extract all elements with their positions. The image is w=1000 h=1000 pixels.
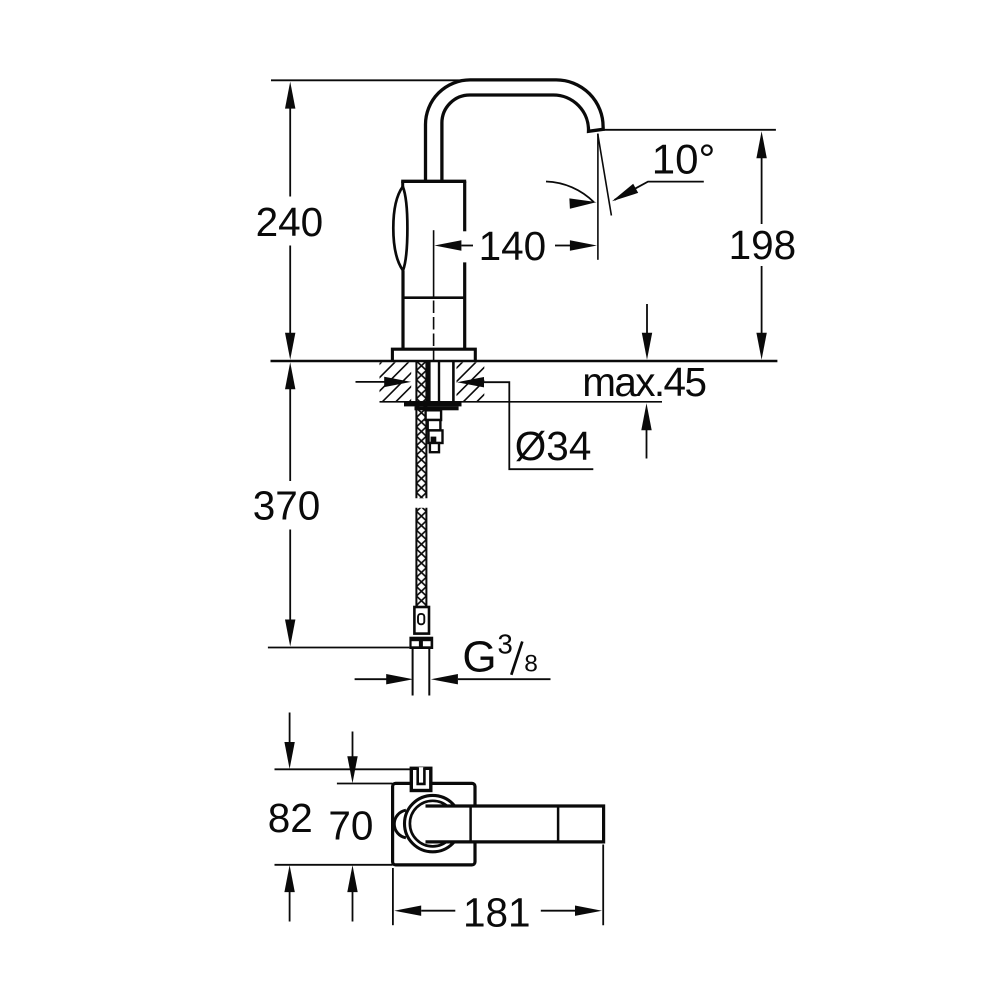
outlet extension line [604,129,776,131]
body joint line [403,296,465,299]
spout bar division line 2 [557,806,560,842]
fraction slash [511,642,522,675]
connector fitting A [426,410,442,420]
hose nut window left [412,641,419,646]
lever tab slot [418,767,425,784]
hose end fitting slot [418,614,424,624]
svg-text:370: 370 [253,483,321,529]
escutcheon square [393,783,475,865]
faucet body right edge upper [463,181,466,231]
faucet body left edge upper [401,181,404,187]
198 dimension line [756,131,766,360]
faucet body top edge [401,180,466,183]
svg-text:3: 3 [498,628,513,659]
base flange [392,349,475,361]
svg-text:140: 140 [479,223,547,269]
hose nut window right [423,641,431,646]
svg-text:240: 240 [256,199,324,245]
spout pipe outline (side view) [426,80,604,181]
G3/8 dimension right arrow [431,674,551,684]
70 lower arrow [347,865,357,921]
body inner circle [410,801,456,847]
max45 upper arrow [642,304,652,360]
hose end fitting [414,607,429,634]
mounting nut [415,406,459,410]
svg-text:8: 8 [524,651,538,678]
hose nut [409,637,433,649]
svg-text:181: 181 [463,889,531,935]
10 degree leader line [615,182,704,200]
angle arc [546,182,594,203]
svg-text:70: 70 [328,802,373,848]
counter hatching [331,313,579,413]
wire top extension line from spout top to 240 dimension [271,79,468,81]
diameter 34 leader right arrow and bent leader [457,377,593,469]
centerline solid [433,230,435,298]
240 dimension line [285,82,295,360]
svg-text:Ø34: Ø34 [515,423,592,469]
181 left extension line [392,868,394,925]
spout bar top view [426,806,604,842]
stream vertical extension line [597,134,599,260]
spout bar division line 1 [469,806,472,842]
140 dimension [434,240,597,250]
181 dimension line [394,906,602,916]
svg-text:max.45: max.45 [582,359,705,405]
181 right extension line [602,845,604,926]
G3/8 pipe left edge [412,649,414,696]
stream 10 degree slant line [598,134,612,216]
angle arc arrowhead [569,197,597,209]
370 bottom extension line [268,647,410,649]
70 top extension line [337,783,393,785]
connector fitting C inner block [431,437,437,443]
svg-text:G: G [462,633,496,682]
bottom extension line for 82 and 70 [275,864,393,866]
shank middle line [438,361,440,402]
faucet body right edge lower [463,262,466,349]
body outer circle [405,795,461,851]
mounting washer [404,402,462,407]
lever lens shape [393,187,407,271]
G3/8 dimension left arrow [355,674,414,684]
70 upper arrow [347,732,357,784]
G3/8 pipe right edge [428,649,430,696]
svg-text:10°: 10° [652,136,716,183]
svg-text:82: 82 [268,795,313,841]
max45 lower arrow [641,403,651,458]
left bump arc [394,810,406,838]
faucet body left edge lower [401,271,404,350]
diameter 34 leader left arrow [356,377,412,387]
lever tab top view [411,768,431,790]
370 dimension line [285,362,295,646]
connector fitting D [430,443,439,452]
connector fitting B [428,420,441,430]
82 upper arrow [284,713,294,770]
deck (counter top) line [271,360,778,362]
82 top extension line [275,768,412,770]
centerline dashed [433,301,435,361]
braided hose lower segment [416,508,426,607]
82 lower arrow [284,865,294,921]
threaded shank left edge [426,361,430,402]
10 degree leader arrowhead [610,184,639,206]
braided hose upper segment [416,361,426,498]
svg-text:198: 198 [729,222,797,268]
connector fitting C [429,430,443,443]
shank right edge [452,361,455,402]
counter bottom line extended to max.45 arrow [380,401,663,403]
